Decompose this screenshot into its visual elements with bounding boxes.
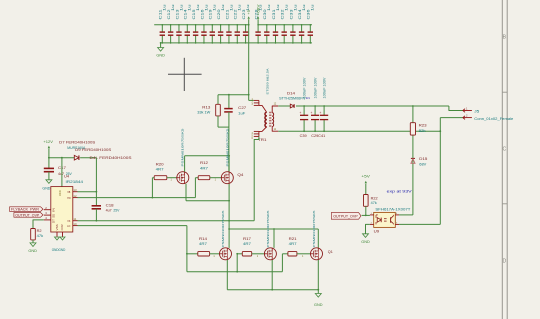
- power flag +5 feeding bank: [248, 16, 250, 19]
- wire opto emitter to GND: [366, 224, 370, 233]
- svg-text:HO: HO: [67, 198, 71, 200]
- svg-text:PSMN010R75SK5: PSMN010R75SK5: [180, 128, 184, 166]
- capacitor C22: [236, 25, 238, 32]
- svg-text:1u: 1u: [246, 4, 250, 11]
- capacitor C29 polarized: [314, 106, 316, 115]
- capacitor C20: [220, 25, 222, 32]
- svg-text:Q1: Q1: [328, 250, 333, 254]
- resistor R21: [282, 253, 288, 255]
- svg-text:10: 10: [73, 222, 77, 226]
- transistor Q5 upper left MOSFET: [177, 172, 189, 184]
- svg-text:11: 11: [73, 217, 76, 221]
- wire snubber bottom: [217, 116, 219, 127]
- svg-text:ETD59 6&2.5A: ETD59 6&2.5A: [265, 69, 269, 95]
- svg-text:COM: COM: [62, 224, 64, 230]
- wire DT pin to R2: [33, 220, 44, 229]
- wire lower gate bus: [187, 253, 198, 255]
- svg-text:PSMN010R75SK5: PSMN010R75SK5: [221, 210, 225, 247]
- svg-text:R2: R2: [37, 229, 42, 233]
- svg-text:LO: LO: [67, 226, 70, 228]
- svg-text:+: +: [311, 111, 313, 115]
- capacitor C18: [92, 205, 101, 207]
- wire primary bottom to VS node: [254, 136, 259, 220]
- svg-text:47k: 47k: [371, 201, 377, 205]
- svg-text:VB: VB: [67, 192, 71, 194]
- svg-text:R20: R20: [156, 162, 164, 166]
- svg-text:GND: GND: [361, 240, 370, 244]
- svg-text:R14: R14: [199, 237, 207, 241]
- wire gate distribution A: [187, 271, 283, 273]
- svg-text:4R7: 4R7: [200, 166, 208, 170]
- wire +68V top bus right group: [258, 24, 312, 26]
- capacitor C14: [186, 25, 188, 32]
- wire snubber top: [218, 94, 249, 96]
- capacitor C33: [292, 25, 294, 32]
- wire +12V rail: [49, 157, 74, 159]
- connector J5 pin 2: [463, 116, 465, 120]
- optocoupler U9: [374, 212, 396, 227]
- svg-text:D9 FERD40H100S: D9 FERD40H100S: [75, 148, 112, 152]
- svg-text:GND: GND: [42, 187, 50, 191]
- svg-text:100uF 100V: 100uF 100V: [314, 76, 318, 98]
- capacitor C34: [301, 25, 303, 32]
- wire HO net: [78, 197, 196, 199]
- svg-text:C: C: [503, 147, 507, 153]
- svg-text:GND: GND: [28, 249, 37, 253]
- cursor crosshair: [168, 73, 202, 75]
- power flag +68V feeding bank: [257, 16, 259, 19]
- svg-text:+: +: [320, 111, 322, 115]
- resistor R12: [198, 176, 210, 180]
- wire lower sources bus: [226, 260, 228, 290]
- svg-text:D14: D14: [287, 92, 295, 96]
- svg-text:exp at 93V: exp at 93V: [387, 189, 413, 193]
- wire lower drain bus: [229, 228, 318, 230]
- svg-text:GNDGND: GNDGND: [52, 248, 66, 252]
- ground below C17: [46, 180, 52, 184]
- wire LO net: [78, 225, 187, 227]
- svg-text:D: D: [503, 259, 507, 265]
- transistor Q4 upper right MOSFET: [221, 172, 233, 184]
- svg-text:U9: U9: [374, 229, 380, 233]
- capacitor C16: [203, 25, 205, 32]
- svg-text:R22: R22: [371, 197, 378, 201]
- wire R23 to D15 to opto: [412, 135, 414, 215]
- svg-text:GND: GND: [314, 303, 323, 307]
- svg-text:J5: J5: [474, 109, 479, 113]
- connector J5 pin 1: [463, 109, 465, 113]
- capacitor C13: [178, 25, 180, 32]
- svg-text:C27: C27: [238, 106, 246, 110]
- capacitor C21: [228, 25, 230, 32]
- capacitor C23: [245, 25, 247, 32]
- capacitor C41 polarized: [323, 106, 325, 115]
- svg-text:4R7: 4R7: [199, 242, 207, 246]
- capacitor C11: [161, 25, 163, 32]
- svg-text:VS: VS: [67, 221, 71, 223]
- svg-text:OUTPUT_OVP: OUTPUT_OVP: [333, 214, 358, 218]
- svg-text:100uF 100V: 100uF 100V: [303, 76, 307, 98]
- zener diode D15: [411, 157, 415, 159]
- wire VS net: [78, 220, 255, 222]
- wire +68V output bus: [296, 105, 449, 107]
- capacitor C15: [195, 25, 197, 32]
- resistor R13: [216, 104, 221, 116]
- svg-text:13: 13: [73, 188, 77, 192]
- svg-text:R21: R21: [289, 237, 297, 241]
- svg-text:GND: GND: [156, 54, 165, 58]
- capacitor C17: [48, 158, 50, 168]
- ground pins below U4: [56, 232, 58, 237]
- transistor Q1 lower right MOSFET: [311, 248, 323, 260]
- capacitor C30: [266, 25, 268, 32]
- svg-text:IN: IN: [53, 207, 55, 212]
- svg-text:VSS: VSS: [57, 224, 59, 231]
- resistor R22: [364, 195, 369, 207]
- svg-text:1u: 1u: [302, 4, 306, 11]
- hierarchical label OUTPUT_OVP right: [331, 213, 361, 220]
- svg-text:82k: 82k: [419, 129, 426, 133]
- svg-text:R12: R12: [200, 161, 208, 165]
- svg-text:D7 FERD40H100S: D7 FERD40H100S: [59, 140, 96, 144]
- wire upper sources to midpoint: [185, 184, 187, 201]
- hierarchical label OUTPUT_OVP left: [14, 213, 43, 218]
- power flag GND at capacitor bank: [160, 43, 162, 48]
- svg-text:OUTPUT_OVP: OUTPUT_OVP: [15, 213, 40, 217]
- transistor Q7 lower middle MOSFET: [264, 248, 276, 260]
- ground at FET bank: [317, 290, 319, 294]
- svg-text:4R7: 4R7: [243, 242, 251, 246]
- resistor R20: [154, 176, 167, 180]
- svg-text:4u7: 4u7: [106, 208, 112, 212]
- svg-text:+68V: +68V: [256, 4, 260, 16]
- svg-text:C18: C18: [106, 203, 114, 207]
- diode D14: [278, 105, 290, 107]
- capacitor C19: [211, 25, 213, 32]
- svg-text:PSMN010R75SK5: PSMN010R75SK5: [312, 210, 316, 247]
- capacitor C31: [275, 25, 277, 32]
- svg-text:47k: 47k: [37, 234, 44, 238]
- svg-text:+5: +5: [247, 10, 251, 14]
- svg-text:33k 1W: 33k 1W: [197, 111, 211, 115]
- wire GND bottom bus of capacitor bank: [161, 42, 312, 44]
- wire +68V to R23: [412, 106, 414, 123]
- svg-text:B: B: [503, 35, 507, 41]
- svg-text:R17: R17: [243, 237, 251, 241]
- capacitor C39 polarized: [303, 106, 305, 115]
- wire R22 to opto anode: [365, 206, 367, 215]
- svg-text:+: +: [300, 111, 302, 115]
- svg-text:1u: 1u: [285, 4, 289, 11]
- wire +5 rail down to transformer: [248, 25, 250, 101]
- capacitor C12: [170, 25, 172, 32]
- svg-text:FLYBACK_PWR: FLYBACK_PWR: [11, 208, 39, 212]
- svg-text:R23: R23: [419, 123, 427, 127]
- svg-text:12: 12: [73, 194, 77, 198]
- transformer TR1: [254, 99, 259, 101]
- svg-text:100uF 100V: 100uF 100V: [323, 76, 327, 98]
- svg-text:1u: 1u: [293, 4, 297, 11]
- resistor R2: [31, 229, 36, 240]
- hierarchical label FLYBACK_PWR: [10, 207, 43, 212]
- ground below R2: [32, 240, 34, 243]
- wire bootstrap diode to VB: [95, 158, 97, 192]
- svg-text:D15: D15: [419, 157, 427, 161]
- svg-text:1u: 1u: [311, 4, 315, 11]
- svg-text:U4: U4: [64, 174, 69, 178]
- wire upper drains bus: [184, 156, 186, 172]
- svg-text:PSMN010R75SK5: PSMN010R75SK5: [226, 128, 230, 166]
- svg-text:Conn_01x02_Female: Conn_01x02_Female: [474, 117, 513, 121]
- capacitor C32: [283, 25, 285, 32]
- svg-text:4R7: 4R7: [156, 168, 164, 172]
- capacitor C27: [224, 108, 233, 110]
- svg-text:Q4: Q4: [237, 173, 243, 177]
- svg-text:+12V: +12V: [43, 140, 53, 144]
- svg-text:1u: 1u: [267, 4, 271, 11]
- svg-text:4R7: 4R7: [289, 242, 297, 246]
- svg-text:VCC: VCC: [60, 190, 62, 196]
- wire VB net: [78, 191, 97, 193]
- transistor Q6 lower left MOSFET: [220, 248, 232, 260]
- resistor R17: [237, 253, 242, 255]
- svg-text:PSMN010R75SK5: PSMN010R75SK5: [266, 210, 270, 247]
- diode D7 bootstrap: [74, 155, 79, 160]
- wire switch node down to Q4 drain: [228, 127, 230, 172]
- capacitor C28: [257, 25, 259, 32]
- sheet border right: [501, 0, 503, 319]
- svg-text:IR21844: IR21844: [66, 180, 84, 184]
- op-amp U4 IR21844 gate driver: [51, 187, 73, 232]
- svg-text:25V: 25V: [113, 208, 120, 212]
- capacitor C36: [309, 25, 311, 32]
- svg-text:+5V: +5V: [361, 175, 370, 179]
- wire opto collector output: [399, 223, 440, 225]
- resistor R23: [410, 123, 415, 135]
- svg-text:1uF: 1uF: [238, 112, 245, 116]
- svg-text:C41: C41: [318, 134, 325, 138]
- wire VCC down to U4: [61, 158, 63, 187]
- svg-text:SFH617A-1X007T: SFH617A-1X007T: [375, 207, 411, 211]
- svg-text:R13: R13: [202, 105, 210, 109]
- svg-text:68V: 68V: [419, 162, 427, 166]
- svg-text:1u: 1u: [276, 4, 280, 11]
- svg-text:SD: SD: [53, 213, 55, 217]
- wire +68V top bus left group: [154, 24, 249, 26]
- resistor R14: [198, 252, 210, 256]
- wire output return bus: [278, 130, 440, 132]
- svg-text:C39: C39: [300, 134, 307, 138]
